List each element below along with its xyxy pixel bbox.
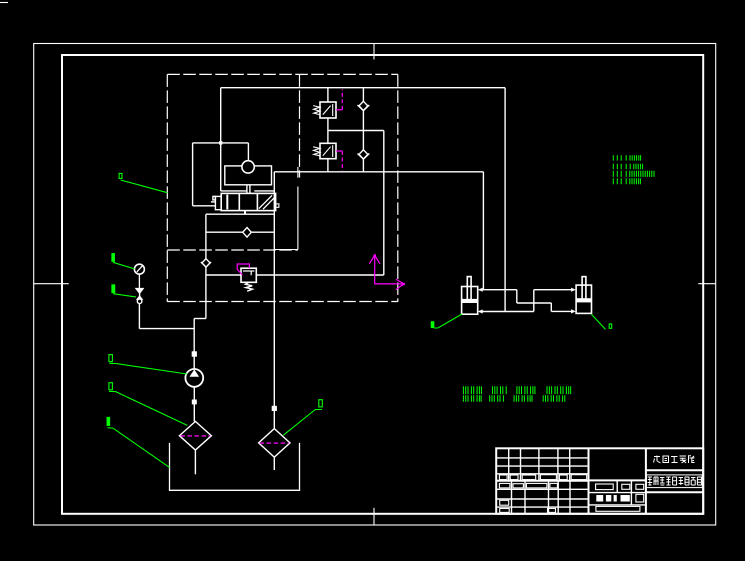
sequence valve SV2 pilot	[336, 150, 342, 152]
school name text	[654, 456, 695, 464]
cylinder CYL1	[462, 277, 478, 315]
arrow: left cyl bottom port	[478, 309, 483, 313]
relief valve RV1 pilot line	[237, 264, 249, 275]
wires: sequence valve column	[328, 88, 384, 275]
tank T1	[170, 443, 300, 490]
wires: cylinder cross piping	[479, 290, 572, 312]
wire: stub above valve right	[254, 190, 274, 192]
node label 0 (pump)	[109, 355, 187, 374]
title block grid lines	[496, 448, 646, 514]
node label 0 (block boundary)	[119, 173, 167, 192]
sequence valve SV1	[320, 102, 336, 118]
wire: into valve actuator	[193, 205, 216, 207]
check valve C2	[358, 150, 370, 159]
bridge manifold rectangle	[225, 166, 272, 185]
check valve C1	[358, 101, 370, 110]
relief valve RV1 spring	[245, 282, 252, 291]
wire: relief rail	[206, 274, 384, 276]
node label 1 (gauge)	[112, 254, 135, 269]
wire: pilot branch horizontal	[193, 142, 249, 144]
valve U1 left actuator	[211, 196, 221, 209]
node label 1 (cylinder CYL1)	[431, 314, 462, 328]
valve U1 left position symbol	[226, 195, 228, 210]
centering tick right	[698, 283, 716, 285]
wire: gauge branch	[139, 328, 194, 330]
measuring circle on bridge	[242, 161, 254, 173]
title block text blobs row4	[499, 475, 586, 480]
bridge legs to valve	[247, 185, 250, 194]
node label 1 (isolator)	[112, 285, 136, 297]
node label 0 (cylinder CYL2)	[592, 314, 612, 329]
return manifold ladder rungs	[139, 214, 274, 369]
wire: header down to valve left top	[220, 88, 222, 191]
filter F1	[179, 421, 211, 450]
filter F2	[259, 429, 290, 458]
valve U1 bottom port stub	[244, 211, 246, 215]
node: port block	[272, 406, 277, 411]
node label 1 (tank)	[107, 417, 169, 467]
arrow: left cyl top port	[478, 288, 483, 292]
wire: pump suction	[193, 387, 195, 422]
drawing title text	[646, 475, 702, 488]
gauge isolator valve	[136, 288, 144, 293]
valve U1 crossed position symbol	[259, 195, 275, 209]
wire: top supply header	[221, 87, 505, 89]
wire: cylinder feed B drop	[504, 88, 506, 312]
centering tick top	[373, 44, 375, 60]
wire: cylinder feed A drop	[482, 172, 484, 290]
corner artifact dash	[0, 2, 8, 4]
wire: down to bridge circle	[247, 143, 249, 161]
check valve C4 (pump line)	[201, 259, 211, 267]
note text block bottom center	[463, 386, 570, 402]
pump P1	[185, 369, 203, 387]
wire: pilot branch left vertical	[192, 143, 194, 206]
title block text blobs lower left	[500, 500, 556, 512]
title block frame	[496, 448, 703, 514]
title block fields middle	[596, 484, 644, 511]
arrow: right cyl top port	[571, 288, 576, 292]
UCS icon	[369, 255, 404, 290]
inner border frame	[62, 55, 703, 514]
outer border frame	[34, 44, 716, 526]
wire: long return drop to right filter	[273, 172, 275, 429]
centering tick left	[34, 283, 69, 285]
cylinder CYL2	[576, 277, 591, 314]
dashed divider horizontal	[167, 249, 298, 251]
sequence valve SV2	[320, 143, 336, 158]
wire: A-line horizontal	[274, 171, 483, 173]
title block text blobs row5	[499, 483, 557, 488]
wire: filter F1 suction stub	[194, 450, 196, 474]
wire: pump pressure riser	[205, 214, 207, 318]
node label 0 (filter F1)	[109, 383, 187, 426]
centering tick bottom	[373, 508, 375, 525]
pressure gauge G1	[134, 264, 144, 288]
relief valve RV1 body	[241, 268, 256, 282]
node: port block	[192, 351, 197, 356]
wire: drain stub vertical	[274, 167, 298, 250]
node: port block	[192, 400, 197, 405]
sequence valve SV1 pilot	[336, 109, 342, 111]
wire: jog to pump	[194, 318, 206, 320]
dashed enclosure box (manifold block boundary)	[167, 74, 397, 301]
directional valve U1 body	[221, 193, 275, 210]
wire: stub above valve left	[221, 190, 247, 192]
node: junction dot	[219, 141, 222, 144]
note text block top right	[613, 155, 654, 184]
arrow: right cyl bottom port	[571, 309, 576, 313]
check valve C3 (bypass)	[243, 228, 252, 238]
node label 0 (filter F2)	[283, 400, 322, 436]
dashed divider vertical	[299, 74, 301, 177]
valve U1 right end cap	[276, 204, 279, 207]
wire: filter F2 stub	[273, 457, 275, 470]
